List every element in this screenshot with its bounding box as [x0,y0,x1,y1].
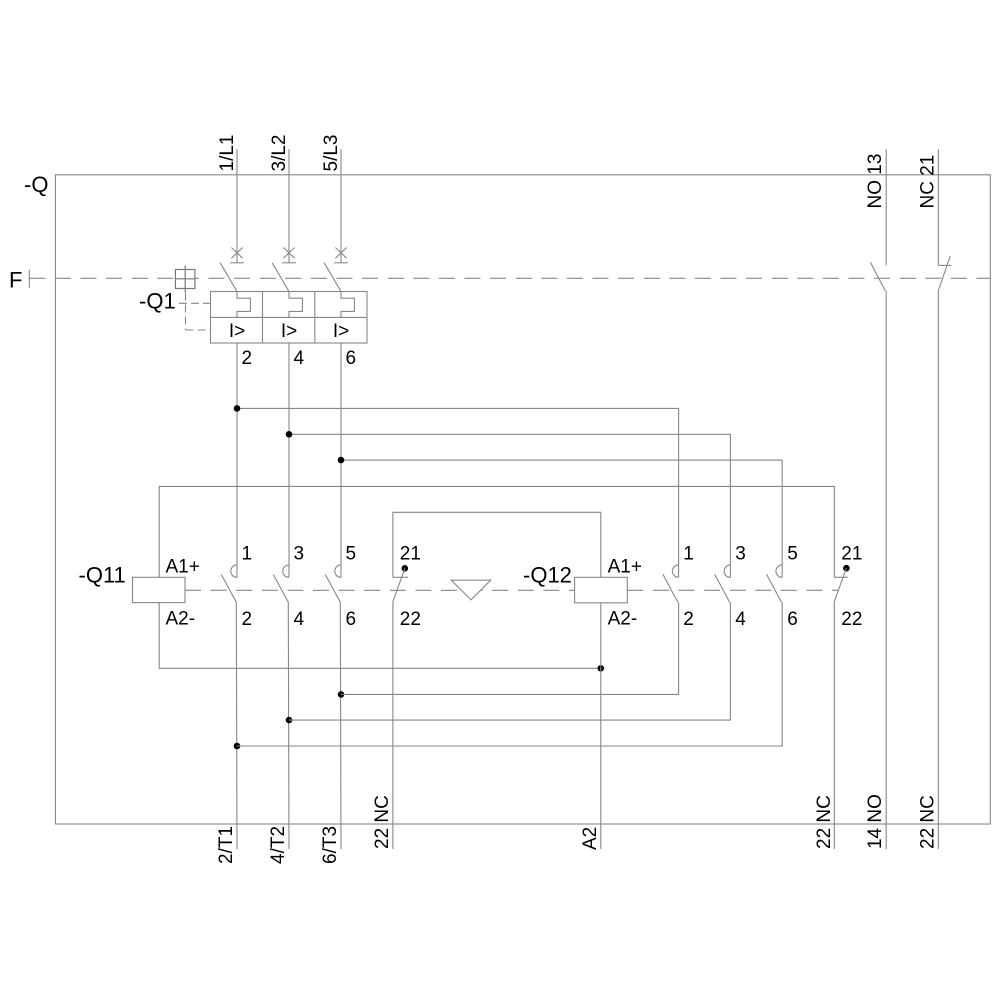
svg-text:-Q11: -Q11 [79,563,126,588]
wire 5/L3 top [340,149,342,263]
crossover wire Q12-2 to T3 [341,602,679,694]
svg-text:1: 1 [683,544,694,565]
wire 3/L2 top [288,149,290,263]
coil -Q12 [575,577,628,603]
svg-text:22 NC: 22 NC [814,795,835,849]
svg-text:6: 6 [346,348,357,369]
svg-text:2/T1: 2/T1 [216,826,237,864]
svg-text:4: 4 [294,609,305,630]
wire NC 21/22 upper [937,149,939,265]
svg-text:A2: A2 [580,827,601,850]
wire Q12 A1 to Q11 aux contact 21 [393,512,601,577]
contact NO 13/14 blade [870,262,885,291]
node junction L3/Q12 [338,457,345,464]
svg-text:2: 2 [683,609,694,630]
contact Q11-3/4 fixed contact arc [283,565,289,578]
breaker Q1 pole 1 blade [220,263,237,292]
breaker Q1 pole 3 trip cross [334,248,348,263]
contact Q12-1/2 fixed contact arc [672,565,678,578]
contact Q11-5/6 blade [325,575,340,603]
coil -Q11 [133,577,186,602]
crossover wire Q12-6 to T1 [237,602,782,746]
wire Q12 A2 down [600,603,602,849]
svg-text:21: 21 [841,544,862,565]
svg-text:NC 21: NC 21 [917,155,938,209]
contact NC 21/22 blade [938,256,950,291]
breaker Q1 latch pole 2 [289,292,302,318]
svg-text:5/L3: 5/L3 [321,135,342,172]
svg-text:2: 2 [242,609,253,630]
aux contact Q11-21/22 blade [393,568,405,601]
aux contact Q11-21/22 bar [393,576,408,578]
feeder wire to Q12 contact 3 [289,434,730,577]
circuit breaker -Q1 body [211,292,368,344]
contact Q12-5/6 fixed contact arc [776,565,782,578]
svg-text:4: 4 [735,609,746,630]
contact Q11-5/6 fixed contact arc [335,565,341,578]
svg-text:F: F [9,268,22,293]
node junction T1 [234,743,241,750]
svg-text:I>: I> [333,321,349,342]
breaker Q1 pole 2 blade [272,263,289,292]
feeder wire to Q12 contact 5 [341,460,782,577]
actuation line Q11 (dashed) [185,589,575,591]
svg-text:A2-: A2- [166,609,196,630]
contact Q11-1/2 fixed contact arc [231,565,237,578]
wire Q11 out 4 down [287,602,290,849]
wire Q12 aux 22 down [833,602,835,850]
enclosure frame -Q [55,175,990,824]
svg-text:5: 5 [346,544,357,565]
breaker Q1 pole 3 blade [324,263,341,292]
linkage dashes -Q1 [179,293,211,331]
feeder wire to Q12 contact 1 [237,408,679,577]
svg-text:3: 3 [735,544,746,565]
svg-text:2: 2 [242,348,253,369]
node junction L2/Q12 [286,431,293,438]
svg-text:22: 22 [400,609,421,630]
wire phase 2 (Q1 out to Q11 contact 3) [288,343,290,577]
mechanical interlock triangle [451,580,490,600]
node F terminal tick [28,270,30,288]
svg-text:A1+: A1+ [608,557,642,578]
contact Q11-1/2 blade [221,575,236,603]
svg-text:-Q: -Q [24,172,48,197]
breaker Q1 pole 2 trip cross [282,248,296,263]
wire phase 1 (Q1 out to Q11 contact 1) [236,343,238,577]
breaker Q1 latch pole 3 [341,292,354,318]
svg-text:1/L1: 1/L1 [217,135,238,172]
wire NO 13/14 lower [885,291,887,849]
contact Q12-5/6 blade [767,574,782,602]
svg-text:I>: I> [229,321,245,342]
contact Q12-3/4 fixed contact arc [724,565,730,578]
crossover wire Q12-4 to T2 [289,602,730,720]
svg-text:-Q12: -Q12 [523,563,572,588]
aux contact Q11-21/22 node [402,565,409,572]
contact NC 21/22 bar [938,264,951,266]
node junction A2 [598,665,605,672]
svg-text:6: 6 [346,609,357,630]
contact Q12-1/2 blade [663,574,678,602]
wire NC 21/22 lower [937,291,939,849]
svg-text:6/T3: 6/T3 [320,826,341,864]
wire Q11 out 6 down [339,602,342,849]
svg-text:-Q1: -Q1 [139,289,176,314]
node junction T2 [286,717,293,724]
contact Q12-3/4 blade [715,574,730,602]
node junction T3 [338,691,345,698]
svg-text:21: 21 [400,544,421,565]
svg-text:A1+: A1+ [166,557,200,578]
svg-text:NO 13: NO 13 [865,154,886,209]
aux contact Q12-21/22 bar [834,576,848,578]
breaker Q1 latch pole 1 [237,292,250,318]
function line F (dashed) [29,277,990,279]
svg-text:A2-: A2- [608,609,638,630]
svg-text:22: 22 [841,609,862,630]
wire 1/L1 top [236,149,238,263]
node junction L1/Q12 [234,405,241,412]
actuation line Q12 (dashed) [627,589,838,591]
svg-text:4: 4 [294,348,305,369]
aux contact Q12-21/22 node [843,565,850,572]
svg-text:14 NO: 14 NO [865,794,886,849]
wire phase 3 (Q1 out to Q11 contact 5) [340,343,342,577]
wire Q11 A2 to Q12 A2 [159,603,601,669]
wire Q11 A1 to Q12 aux contact 21 [159,486,834,577]
wire Q11 out 2 down [235,602,238,849]
svg-text:4/T2: 4/T2 [268,826,289,864]
svg-text:22 NC: 22 NC [917,795,938,849]
svg-text:6: 6 [787,609,798,630]
svg-text:5: 5 [787,544,798,565]
svg-text:3: 3 [294,544,305,565]
svg-text:22 NC: 22 NC [372,795,393,849]
svg-text:3/L2: 3/L2 [269,135,290,172]
wire NO 13/14 upper [885,149,887,265]
wire Q11 aux 22 down [392,602,394,850]
mechanical linkage square [175,266,195,293]
contact Q11-3/4 blade [273,575,288,603]
svg-text:I>: I> [281,321,297,342]
breaker Q1 pole 1 trip cross [230,248,244,263]
aux contact Q12-21/22 blade [834,568,846,601]
svg-text:1: 1 [242,544,253,565]
